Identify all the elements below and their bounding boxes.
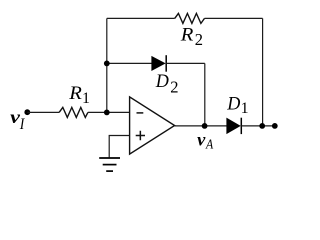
input terminal dot vI — [24, 109, 30, 115]
output terminal dot — [272, 123, 278, 129]
svg-text:v: v — [197, 130, 206, 150]
diode D1 — [227, 118, 241, 134]
svg-text:D: D — [155, 71, 169, 92]
svg-text:1: 1 — [82, 90, 90, 107]
label D1 — [226, 94, 248, 117]
op-amp U1 — [130, 97, 175, 154]
ground — [99, 158, 120, 171]
wire top horizontal right of R2 — [205, 17, 263, 19]
wire D2 branch left segment — [107, 62, 152, 64]
wire D2 branch right segment — [166, 62, 205, 64]
junction dot at inverting input node — [104, 110, 110, 116]
junction dot at feedback riser / D2 branch — [104, 61, 110, 67]
wire op-amp output — [175, 125, 227, 127]
svg-text:I: I — [19, 116, 25, 133]
wire right vertical (feedback drop) — [262, 18, 264, 126]
wire D1 to output terminal — [241, 125, 274, 127]
wire input right of R1 — [88, 111, 130, 113]
resistor R1 — [59, 107, 88, 117]
label R2 — [180, 24, 203, 48]
junction dot at right feedback node — [259, 123, 265, 129]
svg-text:A: A — [205, 137, 213, 152]
svg-text:R: R — [68, 83, 82, 104]
wire input left of R1 — [27, 111, 59, 113]
wire top horizontal left of R2 — [107, 17, 175, 19]
junction dot at node vA — [202, 123, 208, 129]
wire non-inverting input stub — [109, 136, 129, 158]
wire left vertical (feedback riser) — [106, 18, 108, 112]
wire D2 branch vertical to output — [204, 63, 206, 126]
svg-text:2: 2 — [170, 78, 178, 97]
svg-text:1: 1 — [241, 100, 249, 117]
label vA — [197, 130, 213, 153]
resistor R2 — [175, 13, 205, 23]
diode D2 — [152, 55, 166, 71]
svg-text:2: 2 — [195, 30, 203, 49]
label vI — [10, 107, 25, 133]
label D2 — [155, 71, 179, 97]
svg-text:D: D — [226, 94, 240, 115]
svg-text:R: R — [180, 24, 194, 45]
label R1 — [68, 83, 90, 107]
